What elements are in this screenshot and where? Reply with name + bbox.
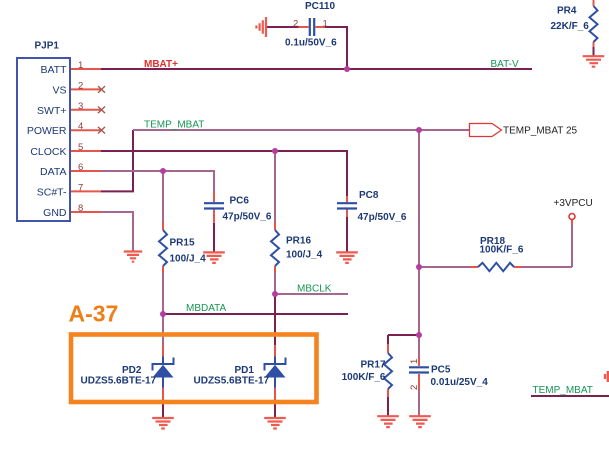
svg-text:MBDATA: MBDATA	[186, 303, 227, 314]
svg-text:TEMP_MBAT 25: TEMP_MBAT 25	[503, 125, 578, 136]
svg-text:PR17: PR17	[360, 360, 385, 371]
svg-text:3: 3	[78, 101, 83, 112]
svg-text:100/J_4: 100/J_4	[286, 250, 323, 261]
svg-text:5: 5	[78, 142, 83, 153]
svg-text:7: 7	[78, 182, 83, 193]
svg-text:GND: GND	[43, 207, 67, 219]
svg-text:PJP1: PJP1	[35, 41, 60, 52]
svg-text:PC5: PC5	[431, 365, 451, 376]
svg-text:47p/50V_6: 47p/50V_6	[358, 212, 407, 223]
svg-text:PR4: PR4	[557, 6, 577, 17]
svg-text:8: 8	[78, 203, 83, 214]
svg-text:PR15: PR15	[170, 238, 195, 249]
svg-text:A-37: A-37	[69, 301, 119, 327]
svg-text:POWER: POWER	[27, 125, 67, 137]
svg-text:4: 4	[78, 121, 83, 132]
svg-text:PC8: PC8	[359, 190, 379, 201]
svg-text:PC6: PC6	[230, 196, 250, 207]
svg-text:BAT-V: BAT-V	[491, 59, 519, 70]
svg-text:SWT+: SWT+	[37, 105, 66, 117]
svg-text:PR16: PR16	[286, 236, 311, 247]
svg-text:100K/F_6: 100K/F_6	[342, 372, 386, 383]
svg-text:TEMP_MBAT: TEMP_MBAT	[533, 385, 593, 396]
svg-text:UDZS5.6BTE-17: UDZS5.6BTE-17	[194, 376, 270, 387]
svg-text:0.1u/50V_6: 0.1u/50V_6	[285, 37, 337, 48]
svg-text:TEMP_MBAT: TEMP_MBAT	[144, 120, 204, 131]
svg-text:22K/F_6: 22K/F_6	[551, 21, 590, 32]
svg-text:0.01u/25V_4: 0.01u/25V_4	[431, 377, 489, 388]
svg-text:+3VPCU: +3VPCU	[554, 198, 593, 209]
svg-text:CLOCK: CLOCK	[30, 146, 66, 158]
svg-text:VS: VS	[52, 84, 66, 96]
svg-text:2: 2	[293, 19, 298, 30]
svg-text:MBCLK: MBCLK	[297, 284, 332, 295]
svg-text:100K/F_6: 100K/F_6	[480, 245, 524, 256]
svg-text:PC110: PC110	[305, 1, 335, 12]
svg-text:100/J_4: 100/J_4	[170, 254, 207, 265]
svg-text:DATA: DATA	[40, 166, 66, 178]
svg-text:1: 1	[409, 359, 420, 364]
svg-text:47p/50V_6: 47p/50V_6	[223, 212, 272, 223]
svg-text:SC#T-: SC#T-	[37, 186, 67, 198]
svg-text:UDZS5.6BTE-17: UDZS5.6BTE-17	[81, 376, 157, 387]
svg-text:2: 2	[409, 385, 420, 390]
svg-text:MBAT+: MBAT+	[144, 59, 178, 70]
svg-text:1: 1	[323, 19, 328, 30]
svg-text:BATT: BATT	[40, 64, 67, 76]
svg-text:1: 1	[78, 60, 83, 71]
svg-text:6: 6	[78, 162, 83, 173]
svg-text:2: 2	[78, 80, 83, 91]
